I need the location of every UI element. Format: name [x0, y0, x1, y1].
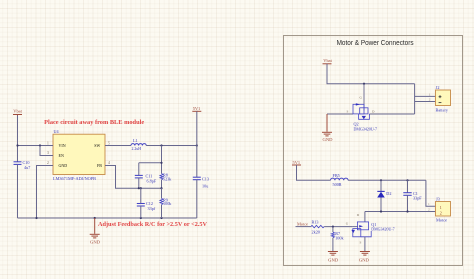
- node D2 top: [380, 179, 382, 181]
- power port Vbat (left): [13, 115, 22, 117]
- IC U4 LM3671MF-ADJ/NOPB: [53, 134, 105, 174]
- wire C11 top: [138, 163, 140, 175]
- wire L1 to output node: [146, 145, 197, 147]
- inductor L1: [131, 144, 146, 146]
- svg-text:SW: SW: [94, 143, 100, 148]
- capacitor C11: [135, 175, 143, 178]
- node rail/R9: [160, 217, 162, 219]
- svg-text:4: 4: [108, 161, 110, 165]
- node bridge/R8: [160, 162, 162, 164]
- svg-text:L1: L1: [133, 138, 138, 143]
- node rail/GNDpin: [35, 217, 37, 219]
- svg-text:33pf: 33pf: [148, 206, 156, 211]
- svg-text:G: G: [360, 96, 363, 100]
- wire EN drop: [40, 146, 53, 156]
- capacitor C1: [407, 180, 409, 192]
- ground GND (R7): [328, 252, 338, 256]
- wire FB to divider: [113, 166, 162, 189]
- wire GND pin to rail: [37, 166, 54, 219]
- wire Q2 source to gnd: [327, 113, 353, 115]
- connector J2 Battery: [436, 90, 451, 106]
- svg-text:1: 1: [429, 92, 431, 96]
- wire C13 bottom: [196, 180, 198, 218]
- svg-text:1: 1: [428, 202, 430, 206]
- wire C12 bottom: [140, 206, 142, 218]
- wire C10 to rail: [17, 164, 19, 218]
- wire C11 bottom: [138, 178, 140, 188]
- wire C12 top: [140, 188, 142, 203]
- capacitor C13: [193, 177, 201, 180]
- transistor Q1 DMG3420U-7 (rotated): [353, 226, 358, 228]
- svg-text:Vbat: Vbat: [13, 109, 22, 114]
- wire J3 pin1 feed: [426, 180, 436, 206]
- svg-text:Motor & Power Connectors: Motor & Power Connectors: [337, 38, 414, 47]
- svg-text:D: D: [357, 213, 360, 217]
- power port Vbat (right): [323, 63, 332, 65]
- node C1 top: [406, 179, 408, 181]
- svg-text:1: 1: [47, 141, 49, 145]
- node FB/C12: [138, 187, 140, 189]
- ferrite bead FB5: [331, 178, 349, 180]
- svg-text:4u7: 4u7: [24, 165, 30, 170]
- sheet box Motor & Power Connectors: [284, 36, 463, 266]
- wire 5V1 down to C13: [196, 111, 198, 177]
- wire C11 bridge: [139, 162, 162, 164]
- wire R13 to gate: [324, 226, 353, 228]
- wire Motor net to R13: [296, 226, 311, 228]
- svg-text:5: 5: [108, 141, 110, 145]
- wire R8 to FB node: [161, 180, 163, 188]
- node D2 bottom: [380, 210, 382, 212]
- svg-text:FB: FB: [97, 163, 102, 168]
- svg-text:GND: GND: [328, 258, 338, 263]
- svg-text:C13: C13: [202, 177, 209, 182]
- svg-text:5V1: 5V1: [293, 160, 301, 165]
- diode D2: [380, 180, 382, 191]
- wire FB5 to J3: [348, 179, 426, 181]
- connector J3 Motor: [436, 202, 451, 217]
- ground GND (Q1 source): [360, 252, 370, 256]
- transistor Q2 DMG3420U-7: [363, 84, 365, 111]
- svg-text:Adjust Feedback R/C for >2.5V: Adjust Feedback R/C for >2.5V or <2.5V: [98, 222, 208, 228]
- svg-text:2: 2: [47, 161, 49, 165]
- node R7 tap: [332, 226, 334, 228]
- svg-text:Place circuit away from BLE mo: Place circuit away from BLE module: [44, 120, 144, 126]
- svg-text:2: 2: [440, 211, 442, 216]
- resistor R7: [332, 227, 334, 232]
- svg-text:J3: J3: [436, 197, 440, 202]
- ground GND (left circuit): [90, 218, 100, 238]
- svg-text:EN: EN: [59, 153, 64, 158]
- resistor R9: [160, 198, 163, 204]
- wire Q2 drain: [370, 113, 415, 115]
- svg-text:Motor: Motor: [297, 222, 309, 227]
- capacitor C12: [137, 204, 145, 207]
- node gate branch: [363, 83, 365, 85]
- wire motor- node: [365, 211, 436, 213]
- power port 5V1 (right): [292, 164, 301, 166]
- svg-text:5V1: 5V1: [193, 106, 201, 111]
- resistor R13: [311, 225, 324, 227]
- svg-text:S: S: [347, 110, 349, 114]
- svg-text:D2: D2: [386, 191, 391, 196]
- pin 4 FB: [105, 165, 113, 167]
- svg-text:GND: GND: [59, 163, 68, 168]
- svg-text:J2: J2: [436, 85, 440, 90]
- svg-text:100k: 100k: [163, 201, 172, 206]
- wire Vbat to J2: [327, 64, 415, 84]
- svg-text:3: 3: [47, 151, 49, 155]
- wire R9 bottom: [161, 205, 163, 218]
- svg-text:523k: 523k: [163, 177, 172, 182]
- wire J2 pin2: [415, 101, 436, 103]
- resistor R8: [160, 174, 163, 180]
- svg-text:G: G: [346, 222, 349, 226]
- wire R9 top: [161, 188, 163, 198]
- wire J2 vertical: [414, 84, 416, 114]
- node junction at Vbat/C10: [16, 144, 18, 146]
- svg-text:2.2uH: 2.2uH: [132, 147, 142, 151]
- node C1 bottom: [406, 210, 408, 212]
- svg-text:R13: R13: [312, 220, 319, 225]
- svg-text:DMG3420U-7: DMG3420U-7: [354, 127, 378, 132]
- node output/5V1: [196, 144, 198, 146]
- svg-text:100k: 100k: [335, 236, 344, 241]
- pin 3 EN: [45, 155, 53, 157]
- wire ground rail: [18, 217, 197, 219]
- svg-text:DMG3420U-7: DMG3420U-7: [371, 227, 395, 232]
- svg-text:Motor: Motor: [436, 218, 448, 223]
- svg-text:2: 2: [428, 208, 430, 212]
- wire VIN horizontal: [18, 145, 54, 147]
- pin 5 SW: [105, 145, 113, 147]
- ground GND (Q2 source): [322, 114, 332, 136]
- wire J2 pin1: [415, 95, 436, 97]
- svg-text:6.8pF: 6.8pF: [147, 178, 157, 183]
- svg-text:10u: 10u: [202, 184, 209, 189]
- svg-text:VIN: VIN: [59, 143, 66, 148]
- svg-text:LM3671MF-ADJ/NOPB: LM3671MF-ADJ/NOPB: [53, 176, 96, 181]
- wire 5V1 to FB5: [297, 165, 331, 180]
- wire Q1 drain: [364, 212, 366, 223]
- node FB/R9: [160, 187, 162, 189]
- svg-text:1: 1: [440, 205, 442, 210]
- svg-text:33pF: 33pF: [413, 195, 422, 200]
- node junction EN branch: [39, 144, 41, 146]
- svg-text:GND: GND: [359, 258, 369, 263]
- svg-text:S: S: [360, 241, 362, 245]
- svg-text:Battery: Battery: [436, 108, 449, 113]
- power port 5V1 (left): [192, 110, 201, 112]
- pin 2 GND: [45, 165, 53, 167]
- wire SW to L1: [113, 145, 131, 147]
- svg-text:U4: U4: [54, 129, 60, 134]
- node L1/R8: [160, 144, 162, 146]
- svg-text:500R: 500R: [333, 182, 342, 187]
- svg-text:Vbat: Vbat: [323, 58, 332, 63]
- svg-text:D: D: [372, 110, 375, 114]
- svg-text:GND: GND: [90, 240, 100, 245]
- wire Q1 source: [364, 237, 366, 251]
- node rail/GND symbol: [94, 217, 96, 219]
- svg-text:2k20: 2k20: [312, 229, 320, 234]
- node C12 top: [140, 187, 142, 189]
- capacitor C10: [14, 162, 22, 165]
- svg-text:2: 2: [429, 97, 431, 101]
- svg-text:GND: GND: [323, 137, 333, 142]
- pin 1 VIN: [45, 145, 53, 147]
- svg-text:FB5: FB5: [333, 173, 340, 178]
- wire R8 column upper: [161, 146, 163, 174]
- node rail/C12: [140, 217, 142, 219]
- wire Vbat vertical: [17, 116, 19, 162]
